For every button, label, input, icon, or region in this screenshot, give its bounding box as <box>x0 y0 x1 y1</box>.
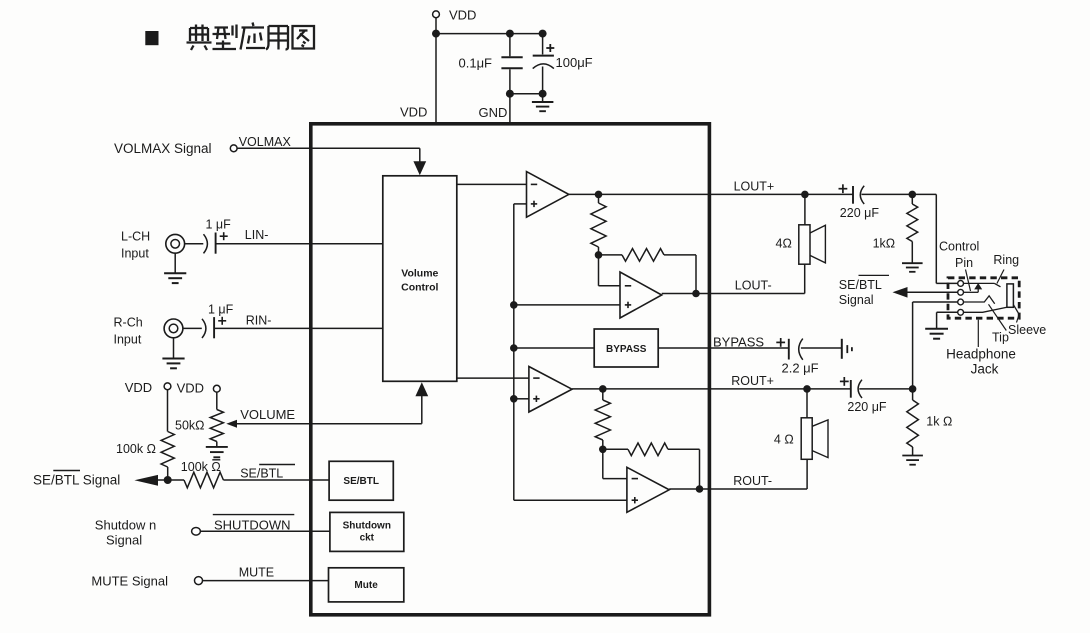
wire J2 stem <box>173 338 175 359</box>
capacitor C2 100uF polarized <box>542 34 544 55</box>
node U5 out junction <box>696 485 704 493</box>
wire junction to U5 minus <box>602 449 604 478</box>
wire speaker L stem top <box>804 194 806 224</box>
arrow SE/BTL signal out <box>893 287 908 298</box>
resistor R4 1k <box>911 194 913 204</box>
wire Rf4 to U5 out <box>668 448 700 450</box>
wire SHUTDOWN to block <box>200 530 330 532</box>
leader line Ring <box>997 270 1004 284</box>
svg-text:LIN-: LIN- <box>245 228 269 242</box>
node U4 out junction <box>599 385 607 393</box>
svg-text:100μF: 100μF <box>556 55 593 70</box>
leader line Pin <box>966 270 971 292</box>
resistor Rf3 feedback vertical (R) <box>602 389 604 400</box>
svg-text:Signal: Signal <box>106 533 142 548</box>
IC U1 outline <box>311 124 710 615</box>
wire VOLUME <box>237 423 422 425</box>
node VDD rail junction <box>432 30 440 38</box>
wire U5 out / ROUT- <box>669 488 807 490</box>
wire pin2 to control arrow <box>964 291 979 293</box>
svg-text:SE/BTL: SE/BTL <box>343 476 379 487</box>
wire U4 out / ROUT+ <box>572 388 851 390</box>
wire VC to op-amp U4 minus <box>457 377 529 379</box>
op-amp U3 (L-) <box>620 272 662 318</box>
svg-text:Shutdown: Shutdown <box>343 521 391 532</box>
block Volume Control <box>383 176 457 381</box>
block Mute <box>329 568 404 602</box>
arrow SE/BTL out <box>134 475 158 486</box>
svg-text:50kΩ: 50kΩ <box>175 419 205 433</box>
wire GND pin drop <box>509 94 511 123</box>
node U2 out junction <box>595 191 603 199</box>
wire pin4 to ground <box>937 311 958 313</box>
node LOUT+/speaker junction <box>801 191 809 199</box>
ground under 100uF <box>542 94 544 102</box>
leader line Tip <box>989 304 1007 330</box>
terminal VDD left <box>164 383 171 390</box>
pin 3 tip contact circle <box>958 299 964 305</box>
wire speaker R stem bottom <box>806 459 808 489</box>
svg-text:ckt: ckt <box>360 533 375 544</box>
svg-text:VOLMAX: VOLMAX <box>239 135 292 149</box>
wire arrow to junction <box>156 479 184 481</box>
svg-text:220 μF: 220 μF <box>847 400 887 414</box>
node rail/0.1uF junction <box>506 30 514 38</box>
terminal VDD top <box>433 11 440 18</box>
svg-text:LOUT+: LOUT+ <box>734 180 775 194</box>
wire J1 stem <box>174 253 176 273</box>
svg-text:100k Ω: 100k Ω <box>181 460 221 474</box>
svg-text:VDD: VDD <box>449 8 476 23</box>
wire Rf2 to U3 out <box>664 254 696 256</box>
svg-text:VDD: VDD <box>125 380 152 395</box>
arrow into Volume Control bottom <box>415 382 428 396</box>
svg-text:4Ω: 4Ω <box>776 237 792 251</box>
svg-text:RIN-: RIN- <box>246 314 272 328</box>
svg-text:SE/BTL Signal: SE/BTL Signal <box>33 472 120 487</box>
svg-text:MUTE: MUTE <box>239 565 274 579</box>
wire VDD rail <box>436 33 543 35</box>
overline BTL <box>259 464 295 466</box>
svg-text:4 Ω: 4 Ω <box>774 433 794 447</box>
resistor Rf1 feedback vertical (L) <box>598 194 600 203</box>
svg-text:100k Ω: 100k Ω <box>116 442 156 456</box>
ground under R5 <box>902 455 923 457</box>
node GND/0.1uF junction <box>506 90 514 98</box>
resistor Rf2 feedback horizontal (L) <box>599 254 623 256</box>
wire C6 to 1k junction <box>862 193 937 195</box>
wire pin1 ring arm <box>964 282 995 284</box>
wire C7 to 1k junction <box>859 388 912 390</box>
svg-text:Ring: Ring <box>993 253 1019 267</box>
node Rf3/Rf4 junction <box>599 446 607 454</box>
capacitor C5 2.2uF <box>788 339 790 360</box>
plus sign C6 <box>839 188 848 190</box>
node Rf1/Rf2 junction <box>595 251 603 259</box>
speaker SPK2 4ohm <box>801 418 812 460</box>
svg-text:Mute: Mute <box>354 580 378 591</box>
capacitor C1 0.1uF <box>509 34 511 57</box>
wire jack control pin to arrow <box>906 291 958 293</box>
plus sign C2 <box>546 47 554 49</box>
overline far-left BTL <box>53 470 80 472</box>
svg-text:Sleeve: Sleeve <box>1008 323 1046 337</box>
node 100uF/ground junction <box>539 90 547 98</box>
op-amp U2 (L+) <box>527 172 569 218</box>
resistor R5 1k <box>912 389 914 400</box>
wire pin3 tip arm <box>964 296 995 304</box>
wire cap bottoms link <box>510 93 543 95</box>
svg-text:ROUT-: ROUT- <box>733 474 772 488</box>
potentiometer R2 50k <box>216 392 218 409</box>
plus sign C5 <box>776 341 785 343</box>
svg-text:R-Ch: R-Ch <box>114 316 143 330</box>
svg-text:Headphone: Headphone <box>946 347 1016 362</box>
wire pin4 sleeve arm <box>964 307 1007 312</box>
resistor R3 100k horizontal <box>184 472 223 488</box>
svg-text:1k Ω: 1k Ω <box>926 415 952 429</box>
capacitor C4 1uF <box>202 319 206 338</box>
svg-text:Jack: Jack <box>971 362 999 377</box>
svg-text:BYPASS: BYPASS <box>713 335 764 350</box>
control pin arrow <box>977 289 979 292</box>
capacitor C3 1uF <box>204 234 208 253</box>
terminal SHUTDOWN <box>192 528 201 536</box>
wire bus to BYPASS block <box>514 347 594 349</box>
block BYPASS <box>594 329 658 367</box>
title bullet <box>145 31 158 45</box>
svg-text:GND: GND <box>479 105 508 120</box>
wire U2 out / LOUT+ <box>569 193 853 195</box>
node R1/R3 junction <box>164 476 172 484</box>
ground under J1 <box>164 272 186 274</box>
arrow into Volume Control top <box>413 161 426 175</box>
svg-text:2.2 μF: 2.2 μF <box>782 361 819 376</box>
svg-text:BYPASS: BYPASS <box>606 344 647 355</box>
node bus/U3 junction <box>510 301 518 309</box>
svg-text:1 μF: 1 μF <box>208 303 234 317</box>
wire bus to U4 plus <box>514 398 529 400</box>
resistor R1 100k vertical <box>167 390 169 432</box>
svg-text:Shutdow n: Shutdow n <box>95 518 156 533</box>
wire R3 to SE/BTL block <box>223 479 329 481</box>
svg-text:Control: Control <box>939 240 979 254</box>
wire speaker R stem top <box>806 389 808 418</box>
wire J2 to C4 <box>183 327 202 329</box>
wire LOUT+ to jack ring <box>935 194 937 283</box>
svg-text:VDD: VDD <box>177 381 204 396</box>
svg-text:VOLUME: VOLUME <box>240 407 295 422</box>
node bus/BYPASS junction <box>510 344 518 352</box>
svg-text:SE/BTL: SE/BTL <box>240 467 283 481</box>
node C6/R4 junction <box>909 191 917 199</box>
node rail/100uF junction <box>539 30 547 38</box>
terminal MUTE <box>195 577 203 585</box>
node C7/R5 junction <box>909 385 917 393</box>
wire VC to op-amp U2 minus <box>457 183 527 185</box>
wire U3 out / LOUT- <box>662 293 805 295</box>
svg-text:1kΩ: 1kΩ <box>873 237 896 251</box>
title text 典型应用图 <box>187 23 315 51</box>
plug body <box>1007 284 1014 307</box>
svg-text:Signal: Signal <box>839 293 874 307</box>
connector J2 R-Ch RCA <box>164 319 183 338</box>
connector J1 L-CH RCA <box>166 234 185 253</box>
op-amp U5 (R-) <box>627 467 669 512</box>
svg-text:LOUT-: LOUT- <box>735 279 772 293</box>
svg-text:1 μF: 1 μF <box>206 218 232 232</box>
ground under J2 <box>162 358 184 360</box>
node ROUT+/speaker junction <box>803 385 811 393</box>
svg-text:Input: Input <box>114 333 142 347</box>
pin 2 control contact circle <box>958 289 964 295</box>
leader line Headphone Jack <box>977 320 979 347</box>
plus sign C7 <box>840 380 849 382</box>
wire VDD terminal to rail <box>435 18 437 34</box>
svg-text:SE/BTL: SE/BTL <box>839 278 882 292</box>
svg-text:Pin: Pin <box>955 256 973 270</box>
ground under R2 <box>206 446 228 448</box>
pin 4 sleeve contact circle <box>958 309 964 315</box>
svg-text:L-CH: L-CH <box>121 230 150 244</box>
speaker SPK1 4ohm <box>799 225 810 264</box>
svg-text:0.1μF: 0.1μF <box>459 56 493 71</box>
terminal VDD pot <box>213 385 220 392</box>
wire bus to op-amp U2 plus <box>514 203 527 205</box>
wire LIN- to Volume Control <box>216 243 383 245</box>
wire C5 to ground <box>801 347 842 349</box>
plus sign C4 <box>218 320 226 322</box>
capacitor C7 220uF <box>850 380 852 398</box>
wire bus to U3 plus <box>514 304 620 306</box>
terminal VOLMAX <box>230 145 237 152</box>
node bus/U4 junction <box>510 395 518 403</box>
wire J1 to C3 <box>185 243 204 245</box>
block Shutdown ckt <box>330 512 404 551</box>
ground under jack <box>925 328 948 330</box>
node U3 out junction <box>692 290 700 298</box>
capacitor C6 220uF <box>852 186 854 204</box>
wire RIN- to Volume Control <box>214 327 383 329</box>
wire jack tip to ROUT+ <box>912 302 914 389</box>
wire junction to U3 minus <box>598 255 600 286</box>
pin 1 ring contact circle <box>958 281 964 287</box>
wire bus bottom to U5 plus <box>514 499 627 501</box>
wire MUTE to block <box>203 580 329 582</box>
bias bus vertical wire <box>513 204 515 500</box>
ground under R4 <box>902 262 923 264</box>
op-amp U4 (R+) <box>529 367 572 413</box>
svg-text:VDD: VDD <box>400 105 427 120</box>
svg-text:MUTE Signal: MUTE Signal <box>91 574 168 589</box>
arrow wiper into R2 <box>226 420 237 428</box>
wire speaker L stem bottom <box>804 264 806 293</box>
leader line Sleeve <box>1017 314 1020 323</box>
svg-text:Input: Input <box>121 247 149 261</box>
svg-text:Tip: Tip <box>992 331 1009 345</box>
wire VDD pin drop <box>435 34 437 123</box>
svg-text:SHUTDOWN: SHUTDOWN <box>214 518 291 533</box>
block SE/BTL <box>329 461 393 500</box>
headphone jack J3 dashed box <box>948 278 1019 318</box>
svg-text:Volume: Volume <box>401 268 438 280</box>
svg-text:ROUT+: ROUT+ <box>731 374 774 388</box>
wire VOLMAX to IC <box>237 147 420 149</box>
resistor Rf4 feedback horizontal (R) <box>603 448 628 450</box>
wire BYPASS out <box>658 347 789 349</box>
svg-text:VOLMAX Signal: VOLMAX Signal <box>114 141 212 156</box>
svg-text:220 μF: 220 μF <box>840 206 880 220</box>
svg-text:Control: Control <box>401 282 438 294</box>
plus sign C3 <box>220 235 228 237</box>
ground sideways (C5) <box>841 339 843 359</box>
